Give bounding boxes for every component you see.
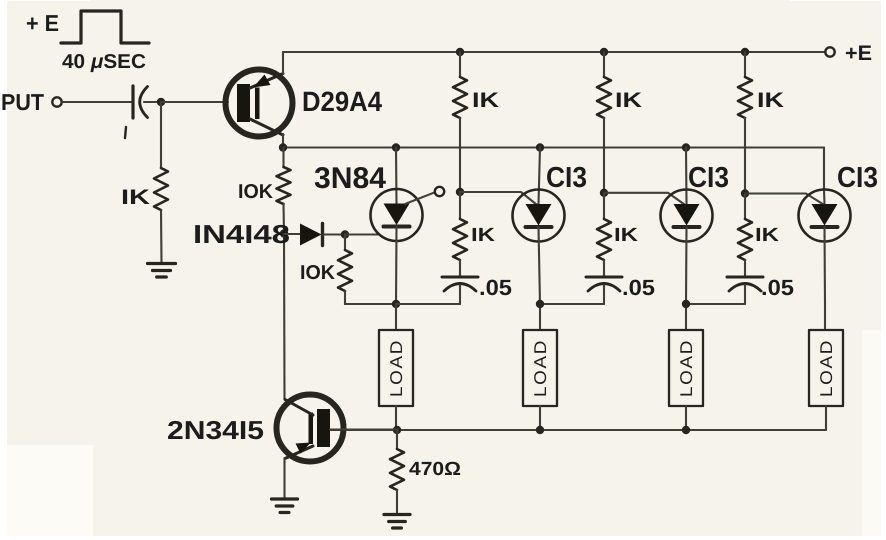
- node 3N84 anode on rail2: [392, 143, 400, 151]
- load box 3: [669, 330, 703, 406]
- ground (470 ohm): [384, 515, 410, 529]
- wire +E to 1K pullup 3: [744, 52, 746, 77]
- wire Q1 emitter to +E rail: [282, 52, 284, 74]
- wire C13 cathode 1: [539, 227, 541, 330]
- resistor 1K lower 1: [453, 219, 467, 260]
- wire load 3 to bottom rail: [685, 406, 687, 430]
- resistor 1K lower 3: [738, 219, 752, 260]
- svg-text:.05: .05: [622, 275, 655, 300]
- wire cathode bus to coupling col 1: [396, 303, 460, 305]
- capacitor .05 number 3: [727, 277, 763, 304]
- svg-text:+E: +E: [845, 42, 872, 65]
- svg-text:40 μSEC: 40 μSEC: [62, 51, 146, 73]
- load box 2: [523, 330, 557, 406]
- node C13 cathode bus 2: [682, 300, 690, 308]
- SCR C13 number 3: [799, 190, 851, 242]
- label 1K pullup 3: [757, 89, 784, 112]
- ground (input): [148, 264, 176, 278]
- load box 4: [809, 330, 843, 406]
- wire coupling col3 to C13#2 cathode: [686, 303, 745, 305]
- label D29A4: [302, 86, 382, 117]
- label 3N84: [314, 162, 386, 195]
- svg-text:2N34I5: 2N34I5: [167, 415, 264, 445]
- wire C13 anode 2: [685, 148, 688, 205]
- wire 10K to diode node: [282, 204, 285, 234]
- node diode anode: [280, 229, 288, 237]
- wire 3N84 cathode: [395, 227, 398, 305]
- wire Q2 base to bottom rail: [330, 428, 398, 430]
- ground (Q2 emitter): [272, 499, 298, 513]
- capacitor C-in: [125, 86, 148, 138]
- svg-text:IOK: IOK: [238, 181, 274, 203]
- wire gate node 3 to SCR gate: [745, 194, 824, 205]
- svg-text:IK: IK: [757, 89, 784, 112]
- label 2N3415: [167, 415, 264, 445]
- node diode cathode: [341, 230, 349, 238]
- input terminal: [52, 97, 61, 106]
- wire +E to 1K pullup 1: [459, 52, 461, 77]
- svg-text:IK: IK: [614, 225, 638, 246]
- wire 1K lower to cap 2: [603, 260, 605, 277]
- label 10K lower: [300, 262, 336, 284]
- wire C13 cathode 3: [823, 227, 826, 330]
- svg-text:470Ω: 470Ω: [409, 459, 461, 480]
- wire load 2 to bottom rail: [539, 406, 541, 430]
- node gate 3: [741, 189, 749, 197]
- svg-text:3N84: 3N84: [314, 162, 386, 195]
- resistor 1K pullup 1: [453, 77, 467, 118]
- node bottom rail load2: [536, 426, 544, 434]
- wire 3N84 anode-gate: [405, 192, 435, 204]
- svg-text:IK: IK: [121, 186, 150, 209]
- +E terminal: [825, 47, 834, 56]
- wire C13 anode 1: [539, 148, 541, 205]
- label .05 number 2: [622, 275, 655, 300]
- svg-text:.05: .05: [761, 275, 794, 300]
- label C13 number 1: [546, 162, 587, 194]
- wire Q1 collector to rail2: [282, 134, 284, 148]
- resistor 1K lower 2: [597, 219, 611, 260]
- label INPUT (cropped): [1, 89, 44, 115]
- wire 1K to ground: [160, 210, 163, 263]
- node rail2 left: [279, 143, 287, 151]
- wire coupling col1 to 3N84 cathode (already on bus): [459, 303, 461, 305]
- wire load 4 to bottom rail: [825, 406, 827, 430]
- svg-text:PUT: PUT: [1, 89, 44, 115]
- svg-text:CI3: CI3: [688, 162, 729, 194]
- label IN4148: [193, 219, 290, 249]
- label 40 uSEC: [62, 51, 146, 73]
- svg-text:IK: IK: [472, 89, 499, 112]
- svg-text:IN4I48: IN4I48: [193, 219, 290, 249]
- +E top rail: [283, 51, 825, 53]
- wire 10K lower to cathode bus: [345, 291, 396, 304]
- wire 1K pullup to gate node 2 (crosses rail2): [603, 118, 605, 193]
- resistor 10K upper: [277, 148, 291, 205]
- svg-text:IK: IK: [471, 225, 495, 246]
- anode rail (rail2): [283, 146, 824, 148]
- label 1K lower 3: [755, 225, 779, 246]
- label 1K input: [121, 186, 150, 209]
- SCR C13 number 1: [513, 190, 565, 242]
- transistor Q2 2N3415: [277, 395, 344, 462]
- label 1K lower 2: [614, 225, 638, 246]
- resistor 1K pullup 3: [738, 77, 752, 118]
- svg-text:IK: IK: [755, 225, 779, 246]
- wire gate node 1 to SCR gate: [460, 192, 537, 205]
- label .05 number 1: [479, 275, 512, 300]
- label 470 ohm: [409, 459, 461, 480]
- label C13 number 3: [837, 162, 878, 194]
- wire coupling col2 to C13#1 cathode: [540, 303, 604, 305]
- wire gate node to 1K lower 3: [744, 194, 746, 220]
- terminal 3N84 anode-gate: [435, 187, 444, 196]
- capacitor .05 number 1: [442, 277, 478, 304]
- node gate 2: [600, 189, 608, 197]
- label 1K lower 1: [471, 225, 495, 246]
- node +E rail col 3: [741, 48, 749, 56]
- node bottom rail load3: [682, 426, 690, 434]
- svg-text:+ E: + E: [26, 10, 59, 36]
- wire diode node to 3N84 gate: [345, 233, 379, 235]
- capacitor .05 number 2: [586, 277, 622, 304]
- wire down to Q2 collector: [283, 234, 286, 400]
- wire 3N84 cathode to load 1: [395, 304, 397, 330]
- node C13 anode 2 on rail2: [682, 143, 690, 151]
- svg-text:LOAD: LOAD: [387, 339, 406, 397]
- resistor 470 ohm: [390, 430, 404, 514]
- bottom rail: [330, 429, 826, 431]
- wire +E to 1K pullup 2: [603, 52, 605, 77]
- wire node A down: [160, 102, 162, 168]
- wire 3N84 anode: [395, 148, 398, 205]
- wire gate node 2 to SCR gate: [604, 193, 685, 205]
- wire node A to Q1 base: [161, 101, 228, 103]
- label C13 number 2: [688, 162, 729, 194]
- wire load 1 to bottom rail: [395, 406, 397, 430]
- svg-text:CI3: CI3: [546, 162, 587, 194]
- wire gate node to 1K lower 2: [603, 193, 605, 219]
- wire capacitor to node A: [144, 101, 161, 103]
- label 1K pullup 1: [472, 89, 499, 112]
- wire 1K pullup to gate node 3 (crosses rail2): [744, 118, 746, 194]
- node 3N84 cathode bus: [392, 300, 400, 308]
- label +E right: [845, 42, 872, 65]
- svg-text:LOAD: LOAD: [817, 339, 836, 397]
- node C13 cathode bus 1: [536, 300, 544, 308]
- wire 1K lower to cap 3: [744, 260, 746, 277]
- svg-text:D29A4: D29A4: [302, 86, 382, 117]
- svg-text:LOAD: LOAD: [531, 339, 550, 397]
- label +E (pulse): [26, 10, 59, 36]
- wire rail2 corner to C13 3 anode: [823, 148, 826, 205]
- svg-text:CI3: CI3: [837, 162, 878, 194]
- node gate 1: [456, 188, 464, 196]
- node bottom rail 470: [393, 426, 401, 434]
- label 1K pullup 2: [615, 89, 642, 112]
- resistor 1K pullup 2: [597, 77, 611, 118]
- SCR C13 number 2: [661, 190, 713, 242]
- wire Q2 emitter to ground: [283, 458, 285, 498]
- svg-text:IOK: IOK: [300, 262, 336, 284]
- resistor 10K lower: [338, 235, 352, 292]
- node C13 anode 1 on rail2: [536, 143, 544, 151]
- wire 1K pullup to gate node 1 (crosses rail2): [459, 118, 461, 192]
- node +E rail col 2: [600, 48, 608, 56]
- label 10K upper: [238, 181, 274, 203]
- node A (input junction): [157, 98, 165, 106]
- pulse waveform 40 usec: [61, 11, 149, 43]
- SCS U1 3N84: [371, 189, 423, 241]
- wire C13 cathode 2: [685, 227, 688, 330]
- wire 1K lower to cap 1: [459, 260, 461, 277]
- wire gate node to 1K lower 1: [459, 192, 461, 219]
- resistor 1K input: [154, 168, 168, 210]
- svg-text:LOAD: LOAD: [677, 339, 696, 397]
- wire input to capacitor: [62, 101, 131, 103]
- svg-text:IK: IK: [615, 89, 642, 112]
- node +E rail col 1: [456, 48, 464, 56]
- label .05 number 3: [761, 275, 794, 300]
- diode 1N4148: [284, 224, 345, 246]
- svg-text:.05: .05: [479, 275, 512, 300]
- transistor Q1 D29A4: [226, 70, 293, 137]
- load box 1: [379, 330, 413, 406]
